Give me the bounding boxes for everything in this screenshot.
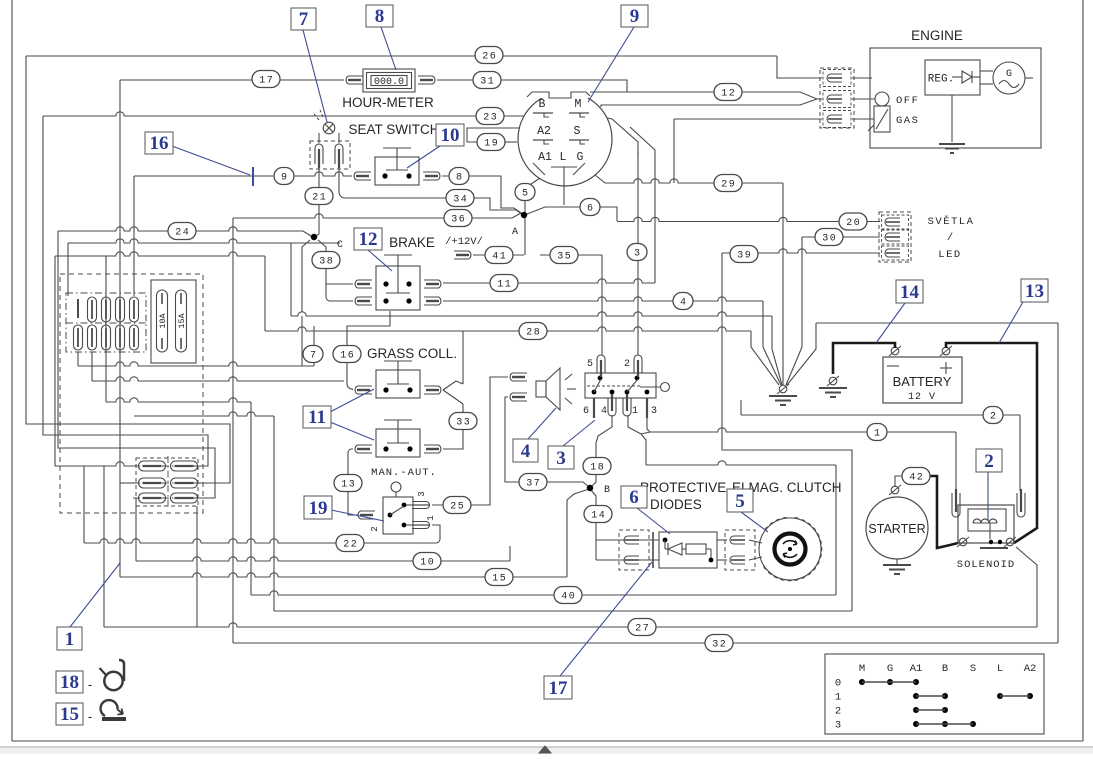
leader 5	[741, 512, 768, 532]
svg-text:1: 1	[65, 629, 75, 650]
wire lamp pin1 to 21	[318, 164, 320, 234]
wire 11 riser	[630, 127, 655, 283]
svg-text:37: 37	[526, 479, 541, 490]
wire y611 loop	[274, 610, 852, 612]
wire tag 2	[983, 407, 1003, 424]
leader 11a	[330, 389, 374, 412]
wire conn3 pin3 to wire1	[647, 418, 650, 432]
wire 2 to solenoid	[740, 400, 742, 415]
svg-text:3: 3	[835, 720, 841, 732]
wire fuse col bottoms	[77, 352, 79, 366]
svg-text:12: 12	[359, 229, 378, 250]
svg-text:1: 1	[426, 515, 436, 520]
leader 14	[876, 303, 905, 343]
wire tag 11	[490, 275, 518, 292]
fuses 10A 15A	[151, 280, 196, 363]
wire 12 ignition M to connector	[585, 92, 822, 100]
svg-text:S: S	[574, 125, 581, 138]
label box 5	[727, 489, 753, 512]
svg-text:33: 33	[456, 418, 471, 429]
connector right of diodes	[725, 530, 755, 570]
svg-text:3: 3	[634, 249, 640, 260]
svg-text:13: 13	[341, 480, 356, 491]
wire 20 to lights	[617, 217, 880, 221]
wire net-26 top bus	[26, 55, 777, 57]
wire 24 bus	[58, 227, 300, 231]
svg-text:-: -	[88, 709, 92, 724]
svg-text:28: 28	[526, 328, 541, 339]
wire row1 feed	[55, 462, 139, 466]
wire tag 9	[274, 168, 294, 185]
wire tag 27	[628, 619, 656, 636]
label box 7	[291, 8, 316, 30]
wire 38 drop	[318, 240, 326, 252]
node A junction	[521, 212, 527, 218]
wire node C left fork extended	[301, 316, 303, 366]
wire vertical x233	[232, 218, 234, 643]
label box 10	[436, 124, 464, 146]
svg-text:S: S	[970, 663, 976, 675]
wire 37 to node B	[545, 482, 589, 487]
svg-text:C: C	[337, 240, 343, 251]
svg-text:3: 3	[651, 406, 657, 417]
wire fuse col5 riser	[133, 176, 135, 296]
wire left drop x58	[58, 231, 215, 498]
wire 27 bus	[104, 623, 1037, 627]
svg-text:15: 15	[60, 704, 79, 725]
svg-text:REG.: REG.	[928, 74, 954, 86]
svg-text:42: 42	[909, 473, 924, 484]
wire ignition M riser diag	[588, 114, 638, 156]
svg-text:10: 10	[441, 125, 460, 146]
wire 25 to buzzer	[432, 377, 508, 505]
svg-text:M: M	[859, 663, 865, 675]
wire left drop x43	[43, 116, 208, 466]
svg-text:11: 11	[308, 407, 326, 428]
wire tag 34	[446, 190, 474, 207]
svg-text:36: 36	[451, 215, 466, 226]
wire 1 to solenoid	[650, 428, 956, 432]
svg-text:32: 32	[712, 640, 727, 651]
fuse strip F-main	[66, 293, 146, 352]
wire 41 link	[473, 254, 524, 256]
svg-text:SVĚTLA: SVĚTLA	[928, 214, 975, 228]
svg-text:16: 16	[150, 133, 169, 154]
wire row1 drop x104	[103, 466, 105, 627]
wire 32 bus	[233, 642, 1058, 644]
legend item 15 hook icon	[102, 717, 126, 721]
label box 1	[57, 627, 82, 650]
svg-text:B: B	[539, 98, 546, 111]
wire 39 long drop x722	[722, 253, 852, 611]
connector X3 6-pin	[585, 373, 656, 398]
battery B1 12V	[883, 357, 962, 403]
svg-text:6: 6	[587, 204, 593, 215]
svg-text:3: 3	[556, 448, 566, 469]
svg-text:17: 17	[259, 76, 274, 87]
svg-text:A1: A1	[910, 663, 923, 675]
wire 16 feed to grass1	[347, 362, 353, 390]
wire tag 10	[413, 553, 441, 570]
border frame left	[11, 0, 13, 741]
svg-text:L: L	[560, 151, 567, 164]
thick wire 42 to solenoid	[929, 476, 958, 548]
svg-text:DIODES: DIODES	[650, 497, 702, 512]
label box 13	[1021, 279, 1048, 302]
label box 15	[56, 703, 83, 725]
label box 18	[56, 671, 83, 693]
svg-text:SEAT SWITCH: SEAT SWITCH	[348, 122, 439, 137]
wire pin1 sw19 to 22	[337, 525, 440, 543]
ignition position table	[825, 654, 1044, 734]
wire tag 38	[312, 252, 340, 269]
wire 36 bus to node A	[233, 214, 512, 218]
engine GAS valve	[874, 106, 890, 132]
wire engine pin1 to engine box	[852, 77, 872, 79]
legend item 18 hook icon	[119, 660, 124, 681]
svg-text:5: 5	[587, 359, 593, 370]
label box 14	[896, 280, 923, 303]
wire engine pin3 feed	[674, 118, 822, 120]
wire tag 5	[515, 184, 535, 201]
label box 4	[513, 439, 538, 462]
wire 39 to lights pin3	[722, 249, 880, 253]
svg-text:35: 35	[557, 252, 572, 263]
chassis ground GND1	[779, 385, 787, 393]
svg-text:STARTER: STARTER	[868, 522, 925, 536]
svg-text:A1: A1	[538, 151, 552, 164]
svg-text:7: 7	[299, 9, 309, 30]
starter terminal wire	[895, 476, 903, 487]
wire A1 to 5 to node A	[525, 176, 543, 255]
wire tag 41	[485, 247, 513, 264]
wire tag 37	[519, 474, 547, 491]
svg-text:9: 9	[281, 173, 287, 184]
wire row3 feed	[135, 498, 137, 561]
svg-text:19: 19	[484, 139, 499, 150]
wire tag 33	[449, 413, 477, 430]
svg-text:B: B	[604, 485, 610, 496]
battery plus thick wire	[946, 343, 1037, 543]
wire tag 42	[902, 468, 930, 485]
wire bus D	[134, 412, 274, 416]
svg-text:A2: A2	[1024, 663, 1037, 675]
svg-text:34: 34	[453, 195, 468, 206]
wire tag 19	[477, 134, 505, 151]
leader 19	[331, 510, 384, 521]
svg-text:5: 5	[735, 491, 745, 512]
wire 8 seat out	[442, 176, 521, 213]
wire 19 hook to A2	[467, 128, 537, 142]
wire buzzer bottom to 37	[505, 397, 545, 482]
wire G to 29 start	[584, 166, 620, 183]
wire bus A fuse to 7	[78, 362, 314, 366]
wire ground bus y323	[816, 322, 1058, 324]
wire row2 riser x120	[119, 296, 121, 577]
buzzer H4	[536, 381, 546, 397]
wire tag 26	[475, 47, 503, 64]
svg-text:15A: 15A	[177, 312, 187, 328]
wire tag 23	[476, 108, 504, 125]
svg-text:LED: LED	[938, 249, 961, 261]
svg-text:18: 18	[590, 463, 605, 474]
wire tag 40	[554, 587, 582, 604]
wire vertical x197	[196, 506, 198, 627]
wire 22 bus	[83, 466, 85, 543]
wire 30 to lights	[802, 236, 880, 238]
svg-text:38: 38	[319, 257, 334, 268]
svg-text:/: /	[947, 232, 953, 244]
wire tag 7	[303, 346, 323, 363]
wire tag 1	[867, 424, 887, 441]
svg-text:MAN.-AUT.: MAN.-AUT.	[371, 467, 437, 479]
svg-text:-: -	[88, 677, 92, 692]
svg-text:0: 0	[835, 678, 841, 690]
wire tag 30	[815, 229, 843, 246]
wire 23 lamp bus	[43, 112, 531, 116]
lamp connector X7 dashed box	[310, 141, 350, 169]
connector 41 fork	[454, 251, 471, 259]
bottom ui bar	[0, 747, 1093, 754]
connector X-engine 3pin	[820, 68, 854, 128]
wire 9 seat bus	[134, 172, 352, 176]
wire row2 feed	[120, 482, 136, 484]
wire 35 segment	[540, 254, 602, 256]
engine ground	[939, 143, 965, 145]
svg-text:41: 41	[492, 252, 507, 263]
wire tag 14	[584, 506, 612, 523]
wire tag 39	[730, 246, 758, 263]
wire 19 stub right	[505, 141, 517, 143]
wire tag 13	[334, 475, 362, 492]
leader 16	[172, 146, 250, 175]
label box 11	[303, 406, 331, 428]
protective diode module V6	[659, 532, 717, 568]
svg-text:GAS: GAS	[896, 115, 919, 127]
wire diodes to clutch	[749, 540, 762, 543]
wire 4 brake row2 to ground	[443, 297, 763, 301]
wire tag 22	[336, 535, 364, 552]
wire bus C	[106, 398, 251, 402]
svg-text:OFF: OFF	[896, 95, 919, 107]
svg-text:12: 12	[721, 89, 736, 100]
battery ground GND2	[829, 377, 837, 385]
svg-text:A2: A2	[537, 125, 551, 138]
svg-text:3: 3	[417, 491, 427, 496]
svg-text:4: 4	[521, 441, 531, 462]
label box 3	[548, 446, 574, 469]
tick mark item17	[652, 532, 654, 568]
wire conn3 pin4 to 18 to node B	[591, 415, 612, 487]
svg-text:6: 6	[583, 406, 589, 417]
wire bus y243	[68, 239, 340, 243]
wire tag 28	[519, 323, 547, 340]
svg-text:17: 17	[549, 678, 569, 699]
wire 29-to-ground drop	[782, 183, 784, 385]
wire fuse col4 riser	[119, 80, 121, 296]
wire 34	[352, 198, 522, 214]
wire tag 32	[705, 635, 733, 652]
svg-text:20: 20	[846, 218, 861, 229]
svg-text:16: 16	[340, 351, 355, 362]
svg-text:12 V: 12 V	[908, 392, 936, 403]
wire tag 20	[839, 213, 867, 230]
starter M2	[866, 497, 928, 559]
svg-text:11: 11	[497, 280, 512, 291]
svg-text:PROTECTIVE: PROTECTIVE	[640, 480, 726, 495]
wire tag 35	[550, 247, 578, 264]
leader 6	[637, 508, 670, 534]
wire 31 hour-meter out	[437, 80, 627, 92]
svg-text:26: 26	[482, 52, 497, 63]
svg-text:5: 5	[522, 189, 528, 200]
label box 16	[145, 132, 173, 154]
wire tag 15	[485, 569, 513, 586]
leader 10	[407, 146, 440, 168]
wire bus y256	[55, 252, 265, 256]
wire 21 drop to node C	[314, 234, 319, 237]
wire node B to 14 to diode connector	[591, 490, 596, 560]
wire mid bus y316	[290, 243, 292, 316]
item16 tick	[252, 167, 254, 186]
lights connector X-LED + label SVETLA/LED	[879, 212, 911, 262]
wire pin1 drop to box top	[641, 434, 646, 465]
leader 1	[70, 563, 120, 627]
connector X17 left of diodes	[619, 530, 649, 570]
label box 12	[354, 228, 382, 250]
wire 17 hour-meter feed	[120, 79, 344, 81]
svg-text:G: G	[1006, 69, 1012, 80]
svg-text:BATTERY: BATTERY	[893, 374, 952, 389]
wire box right riser x836	[835, 465, 837, 595]
wire left drop from top bus	[26, 56, 230, 483]
wire lamp pin2 to 34	[339, 164, 352, 198]
hour-meter M1	[363, 69, 415, 92]
svg-text:30: 30	[822, 234, 837, 245]
leader 3	[563, 420, 595, 446]
leader 13	[999, 302, 1023, 343]
battery minus thick wire	[833, 343, 895, 374]
label box 19	[304, 496, 332, 519]
svg-text:4: 4	[680, 298, 686, 309]
svg-text:10: 10	[420, 558, 435, 569]
wire tag 21	[305, 188, 333, 205]
wire col1 riser	[67, 243, 69, 296]
leader 9	[588, 27, 634, 102]
svg-text:SOLENOID: SOLENOID	[957, 559, 1015, 571]
svg-text:GRASS COLL.: GRASS COLL.	[367, 346, 457, 361]
svg-text:G: G	[577, 151, 584, 164]
border frame right	[1082, 0, 1084, 741]
fuse box outer dashed	[60, 274, 203, 513]
wire tag 16	[333, 346, 361, 363]
wire tag 6	[580, 199, 600, 216]
leader 11b	[330, 422, 374, 440]
svg-text:27: 27	[635, 624, 650, 635]
connector block X1 rows	[136, 458, 198, 506]
svg-text:29: 29	[721, 180, 736, 191]
svg-text:10A: 10A	[158, 312, 168, 328]
svg-text:8: 8	[375, 6, 385, 27]
wire box top y465	[646, 461, 836, 465]
border frame bottom	[12, 740, 1083, 742]
svg-text:1: 1	[874, 429, 880, 440]
label box 6	[621, 486, 647, 508]
wire 40 loop	[251, 591, 836, 595]
svg-text:2: 2	[984, 451, 994, 472]
engine OFF switch	[875, 92, 889, 106]
label box 9	[621, 5, 648, 27]
svg-text:BRAKE: BRAKE	[389, 235, 435, 250]
wire tag 31	[473, 72, 501, 89]
svg-text:/+12V/: /+12V/	[445, 236, 483, 248]
svg-text:14: 14	[900, 282, 920, 303]
leader 4	[528, 408, 556, 439]
wire engine pin2 to OFF	[852, 98, 875, 100]
lamp connector pins	[315, 144, 323, 164]
lamp L7	[323, 122, 335, 134]
solenoid K1	[958, 505, 1014, 543]
wire node C fork left	[302, 240, 310, 312]
wire grass1 out split	[443, 381, 463, 390]
svg-text:6: 6	[629, 487, 639, 508]
wire tag 29	[714, 175, 742, 192]
svg-text:1: 1	[632, 406, 638, 417]
wire bus C drop	[250, 402, 252, 595]
ignition switch S9	[518, 92, 612, 186]
wire tag 25	[443, 497, 471, 514]
svg-text:2: 2	[370, 526, 380, 531]
wire tag 3	[627, 244, 647, 261]
svg-text:9: 9	[630, 6, 640, 27]
wire tag 24	[168, 223, 196, 240]
wire tag 4	[673, 293, 693, 310]
svg-text:13: 13	[1025, 281, 1044, 302]
svg-text:1: 1	[835, 692, 841, 704]
svg-text:2: 2	[624, 359, 630, 370]
wire bus B	[92, 377, 344, 381]
wire conn3 pin1 fork	[628, 415, 641, 434]
svg-text:14: 14	[591, 511, 606, 522]
svg-text:25: 25	[450, 502, 465, 513]
wire left drop x55	[54, 256, 56, 466]
wire tag 17	[252, 71, 280, 88]
svg-text:M: M	[575, 98, 582, 111]
svg-text:24: 24	[175, 228, 190, 239]
svg-text:B: B	[942, 663, 948, 675]
leader 2	[987, 472, 989, 521]
svg-text:G: G	[887, 663, 893, 675]
wire 7 riser	[313, 326, 315, 347]
wire ignition S drop / conn3 pin2 riser	[637, 150, 639, 355]
wire 10 bus	[136, 557, 510, 561]
wire conn3 pin5 riser	[601, 255, 603, 355]
svg-text:18: 18	[60, 672, 79, 693]
svg-text:2: 2	[835, 706, 841, 718]
svg-text:39: 39	[737, 251, 752, 262]
svg-text:L: L	[997, 663, 1003, 675]
wire 28 grass to ground	[462, 331, 464, 384]
label box 8	[366, 5, 393, 27]
svg-text:19: 19	[309, 498, 328, 519]
node C junction	[311, 234, 317, 240]
wire 15 bus to node B	[120, 573, 567, 577]
wire tag 18	[583, 458, 611, 475]
wire tag 8	[449, 168, 469, 185]
svg-text:A: A	[512, 227, 518, 238]
svg-text:22: 22	[343, 540, 358, 551]
wire 29 right drop	[620, 179, 783, 183]
